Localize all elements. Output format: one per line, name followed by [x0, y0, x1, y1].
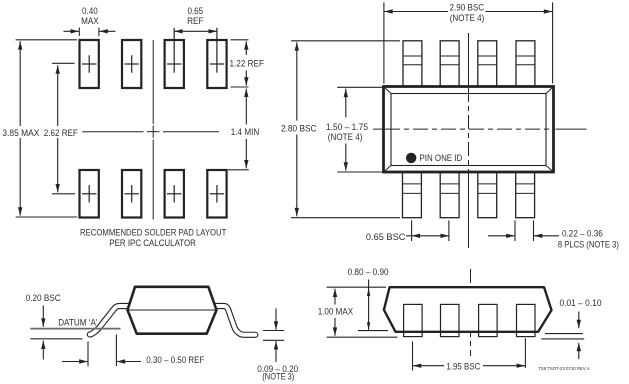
pad P4 — [207, 40, 226, 88]
svg-text:DATUM ‘A’: DATUM ‘A’ — [58, 317, 97, 328]
svg-text:PIN ONE ID: PIN ONE ID — [420, 153, 463, 164]
dimension 0.65 REF (pads) — [174, 30, 217, 32]
center vertical line — [152, 40, 154, 124]
dimension 1.95 BSC — [412, 341, 414, 370]
pad crosses top row — [82, 28, 224, 73]
pad P7 — [165, 170, 184, 218]
svg-text:1.50 – 1.75: 1.50 – 1.75 — [326, 122, 368, 133]
lead 4 front — [517, 304, 536, 336]
dimension 1.22 REF — [231, 39, 249, 41]
pad P2 — [122, 40, 141, 88]
svg-text:1.95 BSC: 1.95 BSC — [446, 361, 480, 372]
svg-text:(NOTE 3): (NOTE 3) — [262, 372, 294, 383]
dimension 0.22-0.36 — [514, 220, 516, 241]
svg-text:0.80 – 0.90: 0.80 – 0.90 — [348, 267, 389, 278]
pad P1 — [80, 40, 99, 88]
svg-text:(NOTE 4): (NOTE 4) — [450, 13, 485, 24]
svg-text:MAX: MAX — [81, 16, 99, 27]
svg-text:(NOTE 4): (NOTE 4) — [328, 132, 363, 143]
centerline — [470, 269, 472, 356]
center horizontal line — [82, 131, 143, 133]
svg-text:0.22 – 0.36: 0.22 – 0.36 — [562, 229, 603, 240]
lead bend lines top row — [403, 56, 535, 65]
vertical centerline — [468, 33, 470, 87]
top extension line — [327, 286, 386, 288]
svg-text:8 PLCS (NOTE 3): 8 PLCS (NOTE 3) — [558, 240, 619, 251]
center cross — [147, 131, 160, 133]
package body outline — [384, 87, 554, 173]
svg-text:TS8 TSOT-23 0710 REV A: TS8 TSOT-23 0710 REV A — [538, 366, 590, 372]
svg-text:0.65 BSC: 0.65 BSC — [366, 232, 406, 243]
lead 3 front — [479, 304, 498, 336]
parting line — [128, 309, 217, 311]
svg-text:0.20 BSC: 0.20 BSC — [26, 293, 61, 304]
dimension 1.50-1.75 — [337, 86, 383, 88]
dimension 0.40 MAX — [64, 30, 79, 32]
pad crosses bottom row — [82, 185, 224, 202]
svg-text:3.85 MAX: 3.85 MAX — [2, 128, 40, 139]
right gull-wing lead — [211, 306, 255, 335]
pin one id dot — [406, 153, 416, 163]
dimension 2.80 BSC — [291, 40, 400, 42]
datum A line — [30, 328, 120, 330]
seating plane line — [327, 336, 398, 338]
lead 2 front — [441, 304, 460, 336]
svg-text:REF: REF — [187, 16, 204, 27]
dimension 1.00 MAX — [334, 289, 336, 305]
pad P3 — [165, 40, 184, 88]
dimension 0.20 BSC arrows — [42, 306, 44, 327]
package body top surface — [391, 94, 546, 166]
package body side — [128, 287, 217, 334]
dimension 0.65 BSC (leads) — [411, 220, 413, 241]
dimension 1.4 MIN — [228, 169, 249, 171]
dimension 0.01-0.10 — [578, 312, 580, 329]
dimension 2.90 BSC — [383, 2, 385, 83]
dimension 0.30-0.50 REF — [87, 342, 89, 367]
chamfer corners — [384, 87, 392, 94]
dimension 2.62 REF — [52, 62, 75, 64]
body bottom extension — [358, 330, 388, 332]
horizontal centerline — [373, 128, 384, 130]
left gull-wing lead — [90, 306, 133, 335]
pad P8 — [207, 170, 226, 218]
lead bend lines bottom row — [403, 184, 535, 194]
package body front — [384, 287, 552, 332]
svg-text:2.90 BSC: 2.90 BSC — [449, 2, 484, 13]
dimension 0.80-0.90 — [368, 280, 370, 331]
dimension 0.09-0.20 — [263, 330, 284, 332]
svg-text:PER IPC CALCULATOR: PER IPC CALCULATOR — [109, 238, 196, 249]
svg-text:1.4 MIN: 1.4 MIN — [231, 127, 260, 138]
svg-text:1.00 MAX: 1.00 MAX — [318, 307, 354, 318]
svg-text:2.80 BSC: 2.80 BSC — [281, 123, 317, 134]
svg-text:2.62 REF: 2.62 REF — [44, 128, 78, 139]
seating line — [30, 338, 82, 340]
pad P5 — [80, 170, 99, 218]
svg-text:0.30 – 0.50 REF: 0.30 – 0.50 REF — [146, 355, 204, 366]
leads 1-8 (top view rows) — [403, 41, 535, 218]
dimension 3.85 MAX — [16, 39, 77, 41]
svg-text:1.22 REF: 1.22 REF — [230, 58, 265, 69]
lead 1 front — [404, 304, 423, 336]
pad P6 — [122, 170, 141, 218]
svg-text:0.01 – 0.10: 0.01 – 0.10 — [560, 298, 602, 309]
